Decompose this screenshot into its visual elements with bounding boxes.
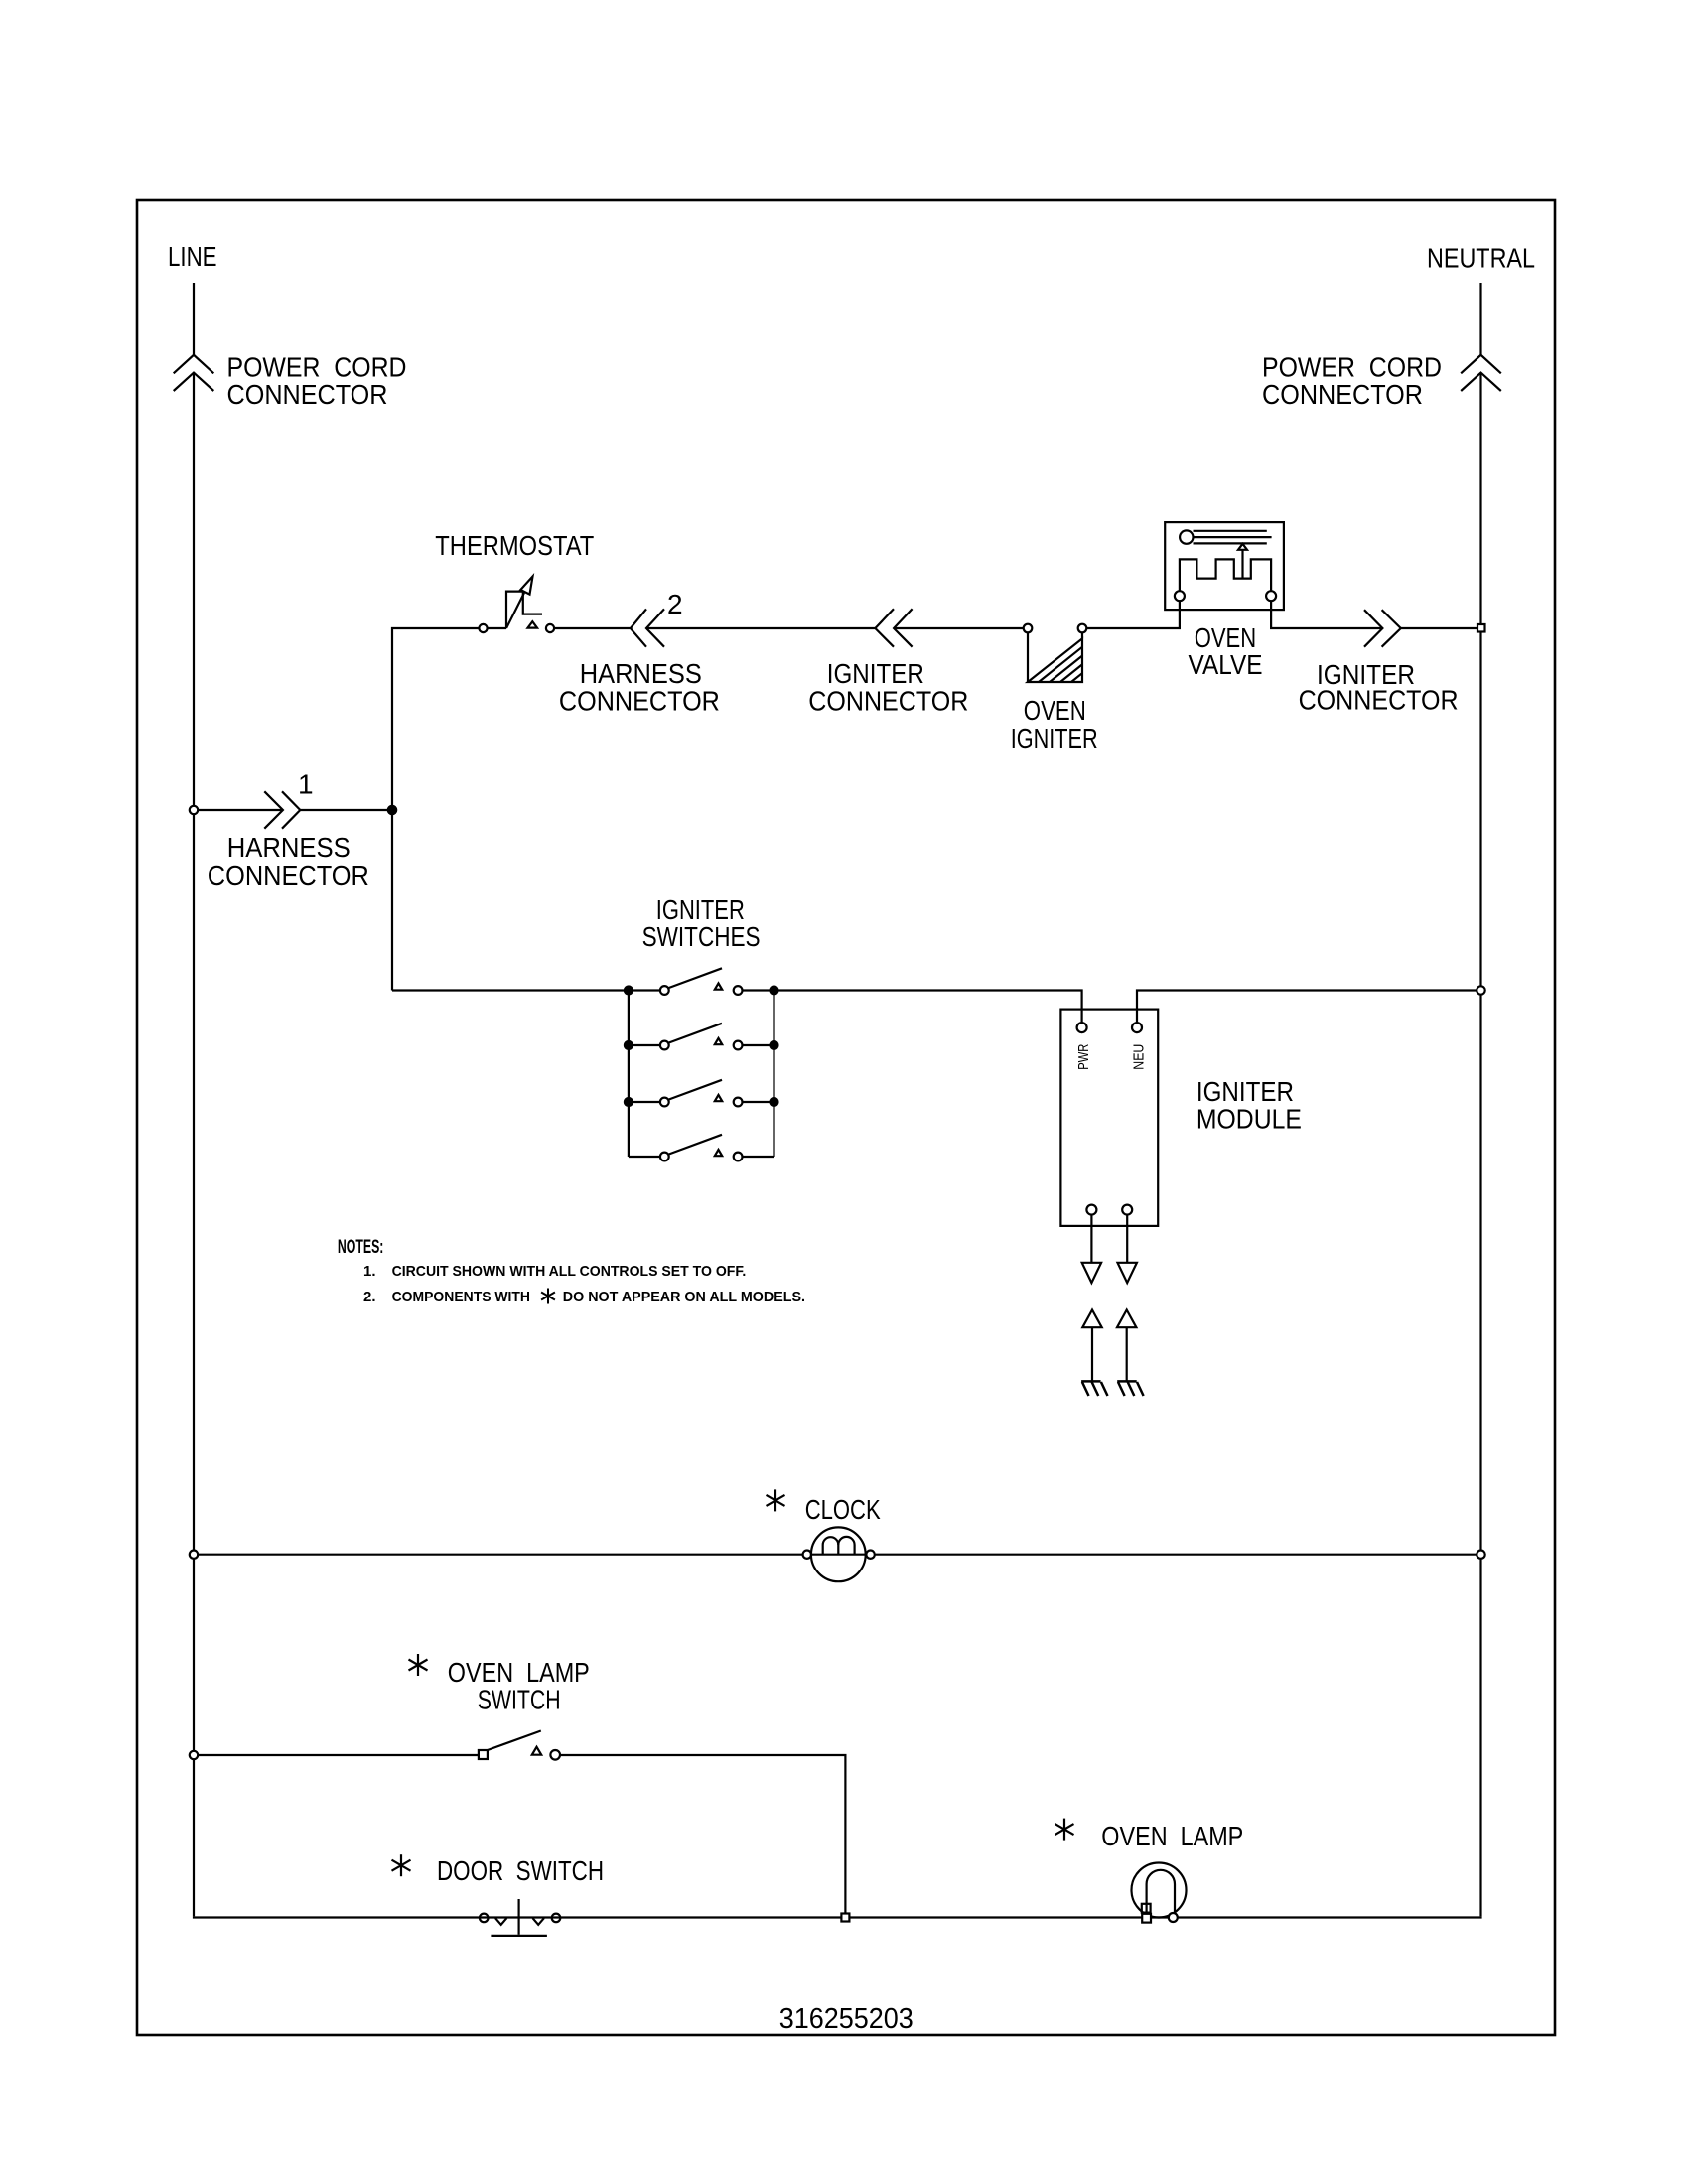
igniter module (1060, 1010, 1158, 1226)
wire: LINE rail (left vertical) (193, 283, 195, 1916)
svg-text:IGNITER: IGNITER (1011, 723, 1098, 753)
svg-text:POWER CORD: POWER CORD (227, 352, 407, 383)
clock (803, 1527, 875, 1581)
spark output arrow right (1118, 1263, 1137, 1283)
node: harness row / LINE rail (190, 806, 198, 814)
svg-text:IGNITER: IGNITER (827, 658, 924, 689)
igniter switch 2 (629, 1024, 774, 1050)
wire: clock row right (875, 1554, 1481, 1556)
wire: module spark output left (1090, 1214, 1092, 1263)
ground (right electrode) (1117, 1381, 1143, 1396)
svg-text:POWER CORD: POWER CORD (1262, 352, 1442, 383)
door switch (480, 1899, 560, 1936)
svg-text:CONNECTOR: CONNECTOR (227, 379, 388, 410)
svg-text:VALVE: VALVE (1189, 649, 1263, 680)
asterisk: clock (767, 1489, 785, 1511)
igniter switch 1 (660, 968, 743, 995)
electrode arrow right (1117, 1310, 1136, 1382)
svg-text:NOTES:: NOTES: (338, 1237, 384, 1258)
svg-text:CONNECTOR: CONNECTOR (808, 686, 968, 717)
svg-text:OVEN LAMP: OVEN LAMP (1101, 1821, 1243, 1851)
node: clock row / LINE rail (190, 1551, 198, 1559)
igniter switch 3 (629, 1080, 774, 1107)
svg-text:NEU: NEU (1131, 1044, 1148, 1070)
svg-text:CONNECTOR: CONNECTOR (1299, 685, 1459, 716)
wire: oven lamp switch to bottom row (560, 1755, 845, 1914)
power cord connector (LINE side) (174, 355, 214, 391)
svg-text:CONNECTOR: CONNECTOR (559, 686, 720, 717)
svg-text:THERMOSTAT: THERMOSTAT (435, 530, 594, 561)
asterisk: oven lamp (1055, 1819, 1074, 1841)
svg-text:1.: 1. (363, 1263, 376, 1280)
asterisk: door switch (392, 1854, 411, 1876)
wire: oven lamp switch row (194, 1754, 479, 1756)
node: clock row / NEUTRAL rail (1477, 1551, 1484, 1559)
node: bus / neutral rail (1477, 986, 1484, 994)
igniter switches (629, 991, 774, 1158)
svg-text:DO NOT APPEAR ON ALL MODELS.: DO NOT APPEAR ON ALL MODELS. (563, 1289, 805, 1305)
wire: igniter switch bus (NEU pin to neutral rail) (1137, 991, 1481, 1024)
wire: module spark output right (1126, 1214, 1128, 1263)
svg-text:SWITCH: SWITCH (478, 1685, 561, 1715)
wire: igniter switch bus (switches to PWR pin) (743, 991, 1082, 1024)
thermostat (479, 577, 554, 633)
wire: NEUTRAL rail (right vertical) (1479, 283, 1481, 1916)
svg-text:2.: 2. (363, 1289, 376, 1305)
asterisk: oven lamp switch (409, 1654, 428, 1676)
svg-text:COMPONENTS WITH: COMPONENTS WITH (392, 1289, 530, 1305)
svg-text:1: 1 (298, 769, 314, 800)
oven lamp switch (479, 1731, 560, 1760)
wire: thermostat row left stub + drop to bus (392, 628, 479, 991)
oven lamp (1132, 1863, 1187, 1923)
wire: clock row left (194, 1554, 803, 1556)
ground (left electrode) (1081, 1381, 1107, 1396)
node: valve row / neutral rail junction (square) (1477, 624, 1485, 632)
spark output arrow left (1082, 1263, 1101, 1283)
node: switch rail dots (625, 987, 778, 1107)
node: harness row / drop junction (388, 806, 396, 814)
svg-text:CONNECTOR: CONNECTOR (208, 860, 369, 890)
wire: thermostat to oven igniter (through harness conn 2 and igniter conn) (554, 627, 1024, 629)
svg-text:316255203: 316255203 (779, 2003, 914, 2035)
svg-text:SWITCHES: SWITCHES (642, 921, 761, 952)
svg-text:CLOCK: CLOCK (805, 1494, 881, 1525)
node: lamp switch drop / bottom row (square) (841, 1914, 849, 1922)
svg-text:LINE: LINE (168, 241, 217, 272)
svg-text:HARNESS: HARNESS (227, 832, 351, 863)
svg-text:PWR: PWR (1075, 1044, 1092, 1070)
electrode arrow left (1082, 1310, 1101, 1382)
svg-text:NEUTRAL: NEUTRAL (1427, 243, 1535, 274)
svg-text:DOOR SWITCH: DOOR SWITCH (437, 1855, 604, 1886)
harness connector 1 (264, 791, 300, 828)
wire: oven igniter to oven valve left pin (1086, 601, 1180, 628)
wire: harness row (LINE rail to x395 drop) (194, 809, 392, 811)
svg-text:OVEN: OVEN (1024, 695, 1086, 726)
harness connector 2 (631, 609, 664, 646)
node: lamp switch row / LINE rail (190, 1751, 198, 1759)
svg-text:HARNESS: HARNESS (580, 658, 702, 689)
igniter switch 4 (629, 1135, 774, 1161)
wire: igniter switch bus (left) (392, 989, 660, 991)
svg-text:OVEN LAMP: OVEN LAMP (448, 1657, 590, 1688)
svg-text:2: 2 (667, 589, 683, 619)
power cord connector (NEUTRAL side) (1461, 355, 1501, 391)
svg-text:CIRCUIT SHOWN WITH ALL CONTROL: CIRCUIT SHOWN WITH ALL CONTROLS SET TO O… (392, 1263, 747, 1280)
wire: oven valve right pin to NEUTRAL rail (through igniter connector) (1271, 601, 1480, 628)
wire: bottom row (door switch / oven lamp net) (193, 1916, 1482, 1918)
igniter connector (left of oven igniter) (875, 609, 912, 647)
oven igniter (1024, 624, 1087, 682)
svg-text:MODULE: MODULE (1196, 1104, 1302, 1135)
oven valve (1165, 522, 1284, 610)
igniter connector (right, to neutral) (1364, 610, 1401, 647)
border frame (137, 200, 1555, 2035)
svg-text:IGNITER: IGNITER (1196, 1076, 1294, 1107)
asterisk: note 2 inline (541, 1289, 555, 1304)
svg-text:CONNECTOR: CONNECTOR (1262, 379, 1423, 410)
